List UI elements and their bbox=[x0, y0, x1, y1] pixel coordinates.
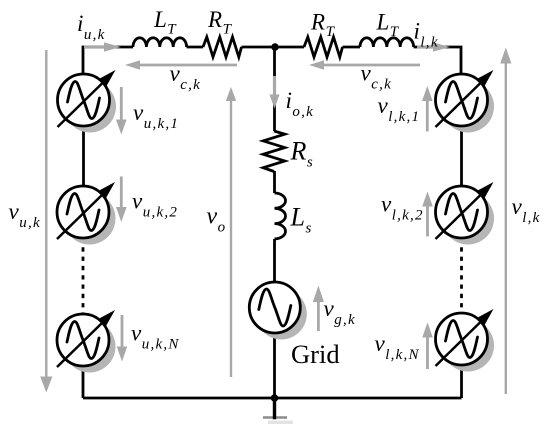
wire: middle branch upper bbox=[273, 47, 276, 131]
ground bbox=[263, 398, 293, 424]
source VuN shadow bbox=[64, 321, 116, 373]
arrow v_u,k,N bbox=[117, 315, 128, 362]
wire: grid source to bottom rail bbox=[273, 333, 276, 398]
arrow v_o bbox=[226, 87, 236, 377]
source Grid shadow bbox=[256, 289, 307, 340]
wire: Ls to grid source bbox=[273, 239, 276, 282]
source Vl1 bbox=[436, 70, 494, 127]
arrow v_c,k left bbox=[125, 60, 237, 70]
wire: between LT and RT (left) bbox=[187, 46, 204, 49]
arrow v_l,k,1 bbox=[422, 86, 433, 132]
arrow v_u,k,2 bbox=[116, 177, 127, 223]
source Vu1 bbox=[58, 70, 116, 127]
arrow v_g,k bbox=[313, 286, 324, 332]
source Vl2 shadow bbox=[442, 193, 494, 245]
source VuN bbox=[57, 310, 115, 367]
arrow i_o,k bbox=[270, 76, 280, 109]
arrow v_u,k,1 bbox=[116, 87, 127, 135]
resistor RT (right) bbox=[304, 37, 343, 57]
wire: top rail right segment bbox=[414, 47, 462, 74]
source VlN shadow bbox=[442, 320, 494, 372]
source VlN bbox=[436, 309, 494, 366]
source Vl1 shadow bbox=[442, 81, 494, 133]
wire: right branch bottom bbox=[460, 365, 463, 398]
wire: top rail left segment bbox=[83, 46, 133, 49]
wire: left branch dashed bbox=[82, 238, 85, 314]
arrow v_c,k right bbox=[309, 60, 420, 70]
wire: Rs to Ls bbox=[273, 171, 276, 193]
resistor RT (left) bbox=[203, 37, 242, 57]
node: top center junction bbox=[271, 43, 279, 51]
inductor LT (right) bbox=[360, 38, 414, 47]
arrow v_l,k,2 bbox=[422, 192, 433, 237]
wire: left branch top bbox=[82, 46, 85, 74]
arrow i_u,k bbox=[84, 42, 121, 51]
source Vu2 shadow bbox=[64, 193, 116, 245]
wire: right branch c1-c2 bbox=[460, 126, 463, 186]
source Vu1 shadow bbox=[64, 81, 116, 133]
resistor Rs bbox=[263, 131, 285, 172]
node: bottom junction bbox=[271, 394, 279, 402]
svg-text:Grid: Grid bbox=[291, 339, 340, 369]
inductor Ls bbox=[275, 193, 286, 239]
arrow v_l,k,N bbox=[422, 323, 433, 370]
wire: RT to center junction bbox=[242, 46, 305, 49]
wire: bottom rail bbox=[83, 397, 462, 400]
wire: left branch bottom bbox=[82, 366, 85, 398]
arrow v_l,k bbox=[500, 48, 511, 395]
wire: right branch dashed bbox=[460, 238, 463, 313]
arrow i_l,k bbox=[417, 42, 450, 51]
arrow v_u,k bbox=[40, 50, 52, 393]
wire: left branch c1-c2 bbox=[82, 126, 85, 186]
source Grid bbox=[249, 282, 300, 333]
source Vu2 bbox=[57, 182, 115, 239]
inductor LT (left) bbox=[133, 38, 187, 47]
source Vl2 bbox=[436, 182, 494, 239]
wire: between RT and LT (right) bbox=[343, 46, 361, 49]
